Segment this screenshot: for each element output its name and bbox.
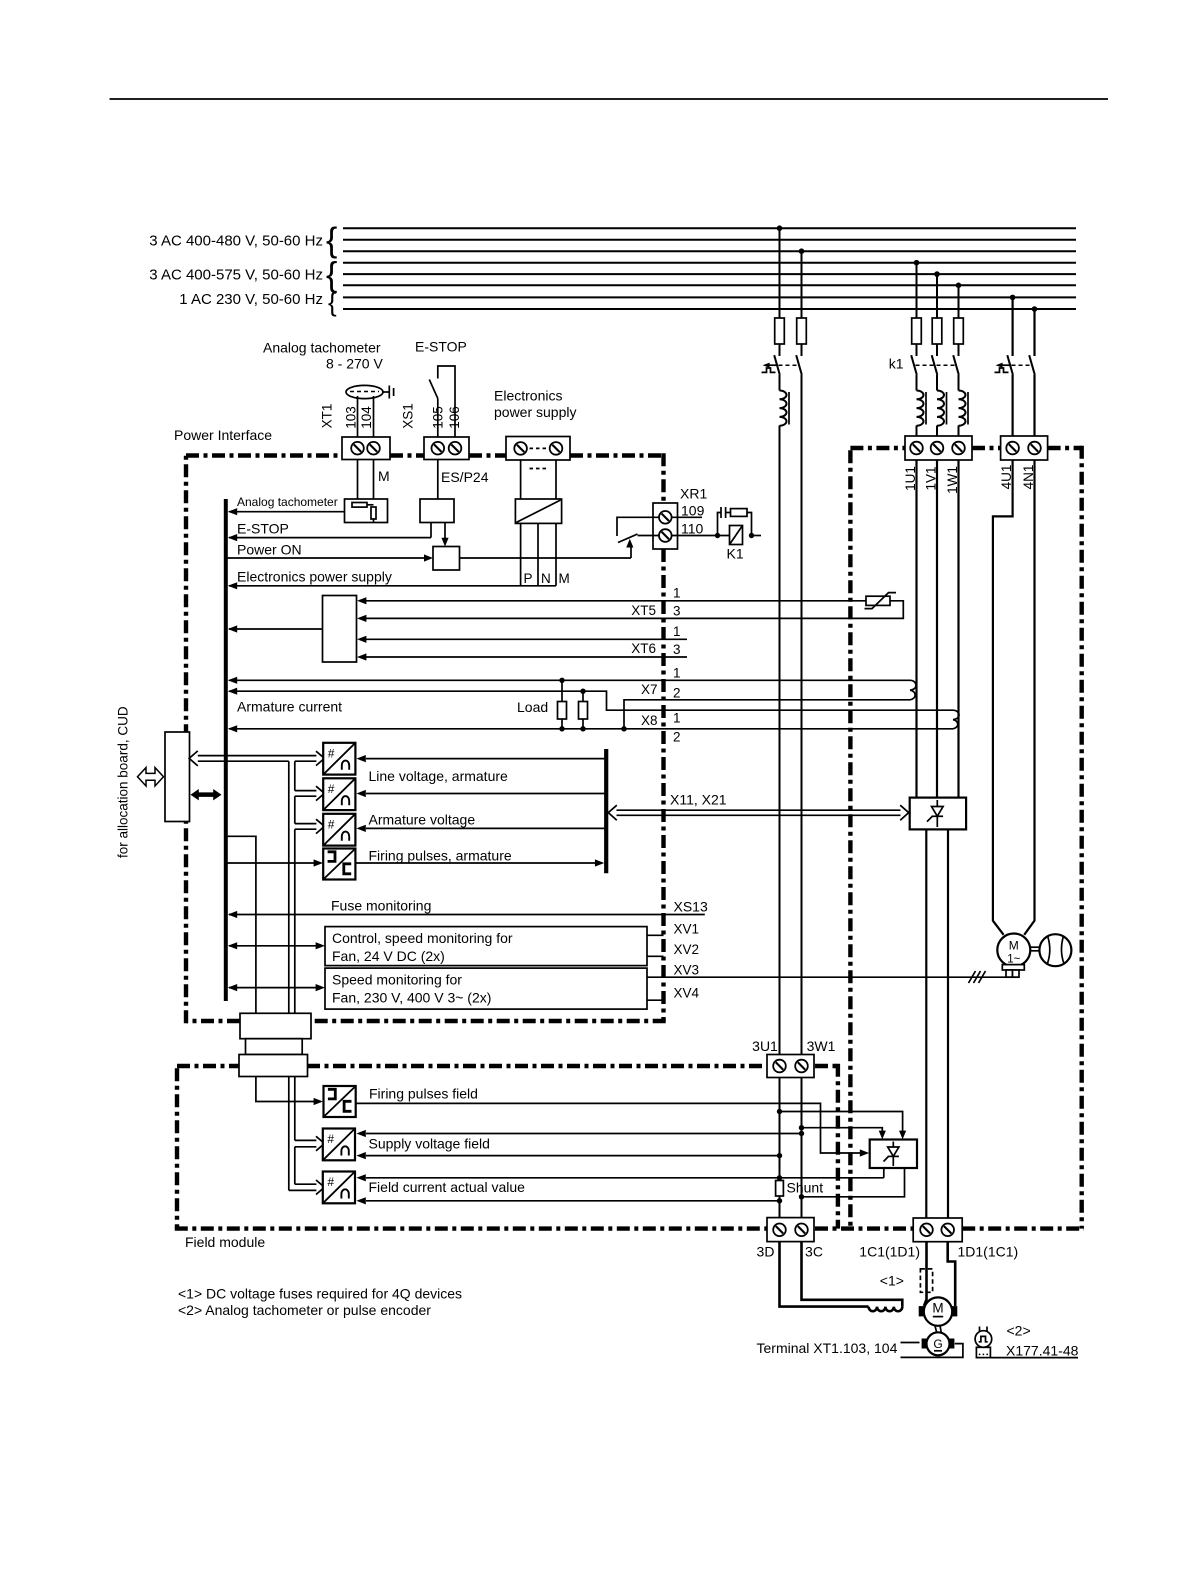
wire XT1.103 into tach box — [357, 460, 359, 500]
left signal bus bar — [224, 499, 228, 1001]
armature interface collector bar — [604, 749, 608, 873]
svg-text:2: 2 — [673, 730, 681, 745]
Power ON logic box — [433, 547, 460, 571]
current sense curl on 1U1 — [910, 680, 916, 700]
screw 1D1 — [941, 1224, 954, 1237]
terminal block 4U1 4N1 — [1001, 436, 1048, 460]
wire PSU left drop — [520, 460, 522, 500]
inductor reactor 1U1 — [917, 391, 927, 426]
svg-text:Firing pulses field: Firing pulses field — [369, 1086, 478, 1102]
svg-text:XR1: XR1 — [680, 486, 707, 502]
wire X7 pin1 armature current sense — [229, 679, 910, 681]
wire bus L2 — [343, 239, 1076, 241]
thyristor symbol field — [884, 1142, 899, 1167]
wire XT6 pin3 — [366, 656, 687, 658]
board connector stack R1 — [240, 1013, 311, 1038]
field module border left — [175, 1068, 179, 1228]
svg-text:Fan, 24 V DC (2x): Fan, 24 V DC (2x) — [332, 948, 445, 964]
screw XT1.103 — [351, 442, 364, 455]
power on arrow into contact — [630, 547, 632, 559]
fuse F5 — [954, 318, 964, 344]
hollow fork arrow CUD to converters — [189, 751, 324, 1195]
firing pulses armature box — [323, 849, 355, 880]
board connector stack R2 — [246, 1039, 303, 1055]
terminal block XS1 — [424, 437, 469, 460]
screw PSU left — [514, 442, 527, 455]
wire XT1.104 into tach box — [373, 460, 375, 500]
wire F4 to contact — [936, 344, 938, 356]
svg-text:XV1: XV1 — [674, 922, 700, 937]
contactor k1 pole 2 — [932, 355, 938, 375]
wire P — [520, 523, 522, 585]
svg-text:<2> Analog tachometer or pulse: <2> Analog tachometer or pulse encoder — [178, 1302, 431, 1318]
field current ADC box — [323, 1172, 355, 1204]
svg-text:X8: X8 — [641, 713, 658, 728]
screw 4U1 — [1006, 442, 1019, 455]
wire XT5 pin3 loop — [366, 601, 903, 619]
wire 4U1 below terminal with jog — [993, 460, 1013, 935]
wire tach 104 — [373, 396, 375, 437]
svg-text:Electronics power supply: Electronics power supply — [237, 569, 392, 585]
wire under 109 label — [672, 516, 702, 518]
wire from bar 2 — [366, 793, 606, 795]
motor M armature — [919, 1306, 925, 1316]
svg-text:<1>: <1> — [880, 1273, 904, 1289]
svg-text:1: 1 — [673, 665, 681, 680]
wire coil to terminal 1U1 — [916, 426, 918, 449]
wire 3U1 tap to field thyristor — [780, 1112, 903, 1132]
svg-text:104: 104 — [359, 406, 374, 429]
svg-text:Supply voltage field: Supply voltage field — [369, 1136, 490, 1152]
svg-text:{: { — [328, 287, 337, 317]
svg-text:109: 109 — [681, 503, 705, 519]
svg-text:1D1(1C1): 1D1(1C1) — [958, 1244, 1019, 1260]
wire coil to terminal 1W1 — [958, 426, 960, 449]
wire bus L5 — [343, 273, 1076, 275]
wire e-stop signal — [229, 537, 431, 539]
wire 1C1 to motor — [924, 1242, 927, 1306]
svg-text:Fan, 230 V, 400 V 3~ (2x): Fan, 230 V, 400 V 3~ (2x) — [332, 990, 491, 1006]
fuse F3 — [912, 318, 922, 344]
svg-text:E-STOP: E-STOP — [237, 521, 289, 537]
wire 4N1 drop — [1033, 309, 1035, 356]
Power Interface border left — [184, 456, 188, 1024]
wire field current lower — [366, 1200, 780, 1202]
terminal block 3D 3C — [767, 1218, 814, 1242]
wire coil to terminal 1V1 — [936, 426, 938, 449]
wire X8 lower armature current — [229, 728, 953, 730]
svg-text:power supply: power supply — [494, 404, 577, 420]
svg-text:Fuse monitoring: Fuse monitoring — [331, 898, 431, 914]
screw PSU right — [550, 442, 563, 455]
wire XT6 pin1 — [366, 638, 687, 640]
wire 1W1 drop — [958, 285, 960, 318]
dashed link fan switch — [1012, 364, 1031, 366]
svg-text:1C1(1D1): 1C1(1D1) — [859, 1244, 920, 1260]
page header rule — [110, 98, 1109, 100]
temperature monitoring interface box — [323, 596, 357, 663]
svg-text:2: 2 — [673, 686, 681, 701]
open double arrow to allocation board — [138, 768, 164, 786]
node tap L5 k1 — [934, 271, 940, 277]
wire feeder 3U1 drop — [779, 228, 781, 318]
current sense curl on 1W1 — [953, 710, 959, 729]
svg-text:103: 103 — [344, 406, 359, 429]
wire encoder baseline — [990, 1357, 1078, 1359]
load resistor R2 — [579, 702, 588, 720]
wire 110 to K1 coil — [672, 535, 730, 537]
svg-text:N: N — [541, 571, 551, 586]
E-STOP switch wiring — [438, 366, 455, 437]
svg-text:XT5: XT5 — [631, 603, 656, 618]
svg-text:M: M — [1009, 939, 1019, 953]
control box fan 230V — [325, 968, 647, 1009]
fuse F2 — [797, 318, 807, 344]
control box fan 24V — [325, 927, 647, 966]
svg-text:1: 1 — [673, 711, 681, 726]
Power Interface border right (to XR1 and below) — [661, 453, 665, 1021]
svg-text:XV4: XV4 — [674, 985, 700, 1000]
switch contact fan pole 1 — [1007, 355, 1013, 375]
wire elbow from bus to field firing line — [226, 836, 256, 1013]
svg-text:3: 3 — [673, 604, 681, 619]
wire field firing feed below connector — [256, 1077, 314, 1102]
wire firing pulses to bar — [355, 862, 595, 864]
svg-text:Field module: Field module — [185, 1234, 265, 1250]
terminal block 3U1 3W1 — [767, 1055, 814, 1078]
wire field winding loop 3D — [780, 1242, 869, 1307]
svg-text:3D: 3D — [757, 1244, 775, 1260]
wire 4N1 to terminal — [1033, 375, 1035, 448]
wire 4N1 below terminal — [1024, 460, 1034, 935]
wire 3W1 long drop to field terminal — [801, 375, 803, 1241]
ES/P24 box — [420, 499, 454, 523]
wire bus L4 — [343, 262, 1076, 264]
wire power on to XR1 — [460, 557, 632, 559]
screw 3W1 — [795, 1060, 808, 1073]
wire from bar 3 — [366, 827, 606, 829]
wire 1D1 to motor — [948, 1242, 956, 1306]
svg-text:1 AC 230 V, 50-60 Hz: 1 AC 230 V, 50-60 Hz — [179, 291, 323, 308]
wire N — [537, 523, 539, 585]
svg-text:<2>: <2> — [1007, 1323, 1031, 1339]
wire field winding loop 3C — [802, 1242, 903, 1307]
svg-text:ES/P24: ES/P24 — [441, 469, 489, 485]
armature thyristor box — [910, 798, 966, 830]
fan motor M 1~ circle — [997, 934, 1030, 967]
svg-text:G: G — [933, 1337, 942, 1351]
svg-text:Line voltage, armature: Line voltage, armature — [369, 768, 509, 784]
svg-text:XS1: XS1 — [401, 403, 416, 429]
svg-text:P: P — [524, 571, 533, 586]
svg-text:Power ON: Power ON — [237, 542, 302, 558]
wire supply voltage field lower — [366, 1155, 780, 1157]
wire XV2 stub — [647, 955, 664, 957]
wire bus L8 — [343, 308, 1076, 310]
inductor reactor 1V1 — [937, 391, 947, 426]
wire 1U1 drop — [916, 263, 918, 318]
thermistor sensor — [866, 596, 890, 605]
wire 109 to relay contact — [617, 517, 659, 536]
node tap L4 k1 — [914, 260, 920, 266]
inductor L reactor 1 — [780, 391, 790, 426]
field thyristor box — [870, 1140, 917, 1169]
terminal block 1U1 1V1 1W1 — [905, 436, 972, 460]
fan plug connector — [1002, 965, 1024, 970]
power supply converter box — [515, 499, 561, 523]
tacho generator G — [922, 1339, 928, 1349]
actuator symbol fan switch — [995, 368, 1009, 372]
node tap L7 fan feeder — [1010, 295, 1016, 301]
inductor reactor 1W1 — [959, 391, 969, 426]
terminal block electronics supply — [506, 437, 570, 461]
wire bus L1 — [343, 227, 1076, 229]
terminal block XT1 — [342, 437, 390, 460]
svg-text:Firing pulses, armature: Firing pulses, armature — [369, 848, 512, 864]
pulse encoder symbol — [979, 1327, 981, 1332]
fuse F4 — [932, 318, 942, 344]
converter ADC box armature voltage 2 — [323, 778, 355, 810]
svg-text:K1: K1 — [727, 546, 744, 562]
svg-text:Analog tachometer: Analog tachometer — [237, 495, 338, 509]
dashes below PSU block — [530, 468, 548, 470]
wire F1 to contact — [779, 344, 781, 356]
screw 4N1 — [1028, 442, 1041, 455]
wire XS1.105 into ES box — [437, 460, 439, 500]
svg-text:1: 1 — [673, 624, 681, 639]
wire field thyristor output right to 3C — [802, 1168, 905, 1197]
shared bottom border — [175, 1226, 1084, 1230]
wire label to G upper — [901, 1342, 920, 1344]
wire 1D1 output — [947, 829, 949, 1217]
svg-text:XV3: XV3 — [674, 963, 700, 978]
wire XV4 stub — [647, 999, 664, 1001]
Power Interface border bottom — [186, 1019, 666, 1023]
svg-text:M: M — [932, 1301, 943, 1316]
wire to coil — [936, 375, 938, 391]
wire X8 upper with step — [229, 691, 953, 710]
svg-text:Analog tachometer: Analog tachometer — [263, 340, 381, 356]
wire 4U1 drop — [1011, 297, 1013, 356]
wire electronics power supply signal — [229, 585, 556, 587]
wire power on signal — [226, 557, 425, 559]
wire to coil — [958, 375, 960, 391]
converter ADC box armature voltage — [323, 814, 355, 846]
relay coil K1 — [730, 526, 743, 545]
wire F5 to contact — [958, 344, 960, 356]
svg-text:<1> DC voltage fuses required: <1> DC voltage fuses required for 4Q dev… — [178, 1286, 462, 1302]
svg-text:Shunt: Shunt — [787, 1180, 824, 1196]
wire 4U1 to terminal — [1011, 375, 1013, 448]
svg-text:X177.41-48: X177.41-48 — [1006, 1343, 1079, 1359]
board connector stack R3 — [239, 1055, 308, 1077]
svg-text:XT6: XT6 — [631, 641, 656, 656]
wire bus L6 — [343, 284, 1076, 286]
X11 X21 hollow arrow — [608, 805, 908, 820]
thyristor symbol armature — [927, 800, 943, 827]
svg-text:3C: 3C — [805, 1244, 823, 1260]
motor shaft — [935, 1326, 937, 1333]
tachometer cable oval — [346, 385, 383, 398]
actuator symbol Q1 — [762, 368, 776, 372]
field module border top — [177, 1064, 838, 1068]
wire 3U1 long drop to field terminal — [779, 426, 781, 1242]
wire to coil — [916, 375, 918, 391]
dashed link k1 — [916, 364, 955, 366]
screw XR1.109 — [659, 511, 672, 524]
wire F2 to contact — [801, 344, 803, 356]
svg-text:110: 110 — [681, 521, 704, 537]
wire 1C1 output — [925, 829, 927, 1217]
screw XS1.105 — [432, 442, 445, 455]
wire control fan double arrow — [229, 945, 316, 947]
screw 3D — [773, 1224, 786, 1237]
wire contact to coil — [779, 375, 781, 391]
converter ADC box line voltage — [323, 743, 355, 775]
wire 1V1 drop — [936, 274, 938, 318]
wire coil out — [752, 535, 762, 537]
armature thyristor bridge verticals — [915, 460, 917, 798]
relay contact arm K1 — [618, 534, 638, 543]
node tap L3 feeder — [799, 248, 805, 254]
wire XV1 stub — [647, 934, 664, 936]
supply voltage field ADC box — [323, 1129, 355, 1161]
wire ES box down arrow to Power ON box — [444, 523, 446, 539]
wire firing pulses from bus — [226, 862, 315, 864]
wire temp box to bus — [229, 628, 323, 630]
wire X7 pin2 — [624, 700, 910, 729]
wire feeder 3W1 drop — [801, 251, 803, 318]
E-STOP switch arm — [429, 380, 438, 399]
firing pulses field box — [324, 1086, 356, 1117]
svg-text:3 AC 400-575 V, 50-60 Hz: 3 AC 400-575 V, 50-60 Hz — [149, 267, 323, 284]
wire ES box to E-STOP line — [430, 523, 432, 538]
svg-text:Load: Load — [517, 699, 548, 715]
load resistor R1 — [558, 702, 567, 720]
shunt resistor — [776, 1181, 784, 1197]
svg-text:1: 1 — [673, 586, 681, 601]
terminal block 1C1 1D1 — [913, 1218, 962, 1242]
svg-text:Armature voltage: Armature voltage — [369, 812, 476, 828]
armature converter border right — [1079, 446, 1083, 1229]
wire analog tach signal — [229, 511, 345, 513]
svg-text:3: 3 — [673, 642, 681, 657]
node tap L6 k1 — [956, 283, 962, 289]
svg-text:{: { — [326, 222, 337, 260]
screw XS1.106 — [449, 442, 462, 455]
contactor k1 pole 1 — [911, 355, 917, 375]
svg-text:8 - 270 V: 8 - 270 V — [326, 356, 383, 372]
fuse option 1C1 — [920, 1269, 932, 1292]
svg-text:XV2: XV2 — [674, 942, 700, 957]
wire XT5 pin1 — [366, 600, 866, 602]
svg-text:XT1: XT1 — [320, 404, 335, 429]
field module border right — [836, 1064, 840, 1229]
hatch marks on fan wire — [969, 971, 986, 983]
analog tachometer input box — [345, 499, 388, 523]
wire fuse monitoring — [229, 914, 705, 916]
fuse F1 — [775, 318, 785, 344]
wire tach 103 — [357, 396, 359, 437]
wire field current upper — [366, 1177, 884, 1179]
svg-text:1~: 1~ — [1007, 954, 1020, 966]
cable shield ground clamp — [383, 391, 389, 393]
XR1 terminal block — [653, 503, 678, 549]
screw 3C — [795, 1224, 808, 1237]
wire switch to 105 — [437, 399, 439, 438]
dashes between PSU screws — [530, 447, 548, 449]
screw 1C1 — [920, 1224, 933, 1237]
fan impeller circle — [1039, 934, 1071, 966]
wire 3W1 tap to field thyristor — [802, 1128, 883, 1131]
svg-text:Armature current: Armature current — [237, 699, 342, 715]
wire supply voltage field upper — [366, 1133, 802, 1135]
contactor k1 pole 3 — [953, 355, 959, 375]
breaker contact Q1 pole 1 — [774, 355, 780, 375]
svg-text:Field current actual value: Field current actual value — [369, 1179, 526, 1195]
wire contact to 110 — [638, 535, 660, 537]
CUD connector rectangle — [165, 732, 190, 822]
armature converter border left — [848, 450, 852, 1228]
svg-text:Control, speed monitoring for: Control, speed monitoring for — [332, 930, 513, 946]
svg-text:XS13: XS13 — [674, 899, 708, 915]
Power Interface border top — [186, 453, 664, 457]
svg-text:Terminal XT1.103, 104: Terminal XT1.103, 104 — [757, 1340, 898, 1356]
inductor field winding — [869, 1307, 903, 1312]
wire bus L3 — [343, 250, 1076, 252]
wire M — [555, 523, 557, 585]
svg-text:X11, X21: X11, X21 — [670, 792, 727, 808]
screw XT1.104 — [367, 442, 380, 455]
node tap L1 feeder — [777, 225, 783, 231]
wire XV3 to fan plug — [647, 976, 1019, 978]
screw 1W1 — [952, 442, 965, 455]
screw 1U1 — [910, 442, 923, 455]
screw 1V1 — [931, 442, 944, 455]
switch contact fan pole 2 — [1029, 355, 1035, 375]
wire bus L7 — [343, 296, 1076, 298]
wire label to G lower loop — [901, 1344, 963, 1358]
node tap L8 fan feeder — [1032, 306, 1038, 312]
wire field thyristor output left — [883, 1168, 885, 1178]
svg-text:3 AC 400-480 V, 50-60 Hz: 3 AC 400-480 V, 50-60 Hz — [149, 233, 323, 250]
svg-text:k1: k1 — [889, 356, 904, 372]
wire speed fan double arrow — [229, 987, 316, 989]
svg-text:Power Interface: Power Interface — [174, 427, 272, 443]
svg-text:X7: X7 — [641, 682, 658, 697]
breaker contact Q1 pole 2 — [796, 355, 802, 375]
RC snubber branch — [718, 513, 722, 536]
screw 3U1 — [773, 1060, 786, 1073]
armature converter border top — [850, 446, 1081, 450]
svg-text:M: M — [378, 468, 390, 484]
fan shaft link — [1030, 946, 1039, 948]
svg-text:Speed monitoring for: Speed monitoring for — [332, 972, 462, 988]
svg-text:M: M — [559, 571, 570, 586]
filled double arrow CUD to bus — [191, 789, 222, 800]
svg-text:Electronics: Electronics — [494, 388, 562, 404]
svg-text:3U1: 3U1 — [752, 1038, 778, 1054]
wire PSU right drop — [555, 460, 557, 500]
svg-text:3W1: 3W1 — [807, 1038, 836, 1054]
wire F3 to contact — [916, 344, 918, 356]
wire line voltage from bar — [366, 758, 606, 760]
dashed link Q1 — [779, 364, 798, 366]
node X7 pin2 junction — [621, 726, 626, 731]
wire firing pulses field output — [356, 1103, 860, 1153]
svg-text:E-STOP: E-STOP — [415, 339, 467, 355]
svg-text:for allocation board, CUD: for allocation board, CUD — [116, 706, 131, 858]
